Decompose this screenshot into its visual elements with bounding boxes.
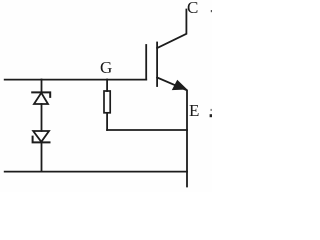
transistor Q1 body bar [156, 43, 158, 87]
transistor Q1 emitter arrowhead [173, 81, 186, 90]
artifact: speck at top right edge [211, 10, 212, 12]
transistor Q1 gate bar [145, 45, 147, 80]
resistor R1 body [104, 91, 110, 113]
wire: resistor to middle rail [106, 114, 108, 130]
transistor Q1 emitter lead [157, 78, 187, 187]
wire: middle rail to emitter [107, 129, 187, 131]
zener diode D2 cathode bar [33, 137, 50, 143]
wire: zener branch to bottom rail [41, 143, 43, 172]
node G label [100, 59, 112, 76]
wire: gate horizontal rail [5, 79, 147, 81]
artifact: cropped marks at right edge [210, 109, 212, 117]
zener diode D1 triangle [34, 93, 48, 104]
transistor Q1 collector lead [157, 10, 186, 49]
wire: between zeners [41, 104, 43, 131]
wire: bottom rail [5, 171, 187, 173]
wire: resistor branch from gate rail [106, 80, 108, 92]
wire: zener branch from gate rail [41, 80, 43, 93]
zener diode D1 cathode bar [32, 92, 50, 97]
node E label [189, 102, 199, 119]
node C label [187, 0, 198, 16]
zener diode D2 triangle [33, 131, 49, 142]
